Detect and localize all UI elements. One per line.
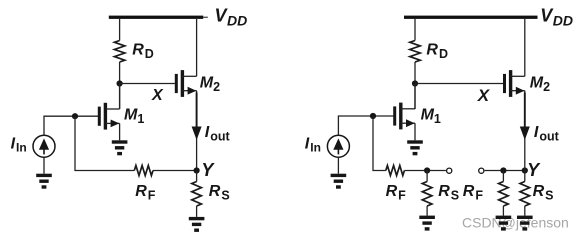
- svg-text:CSDN@jefenson: CSDN@jefenson: [462, 215, 569, 231]
- svg-text:X: X: [151, 87, 164, 104]
- svg-text:Y: Y: [201, 160, 215, 180]
- svg-text:X: X: [477, 86, 491, 105]
- svg-text:Y: Y: [527, 160, 541, 180]
